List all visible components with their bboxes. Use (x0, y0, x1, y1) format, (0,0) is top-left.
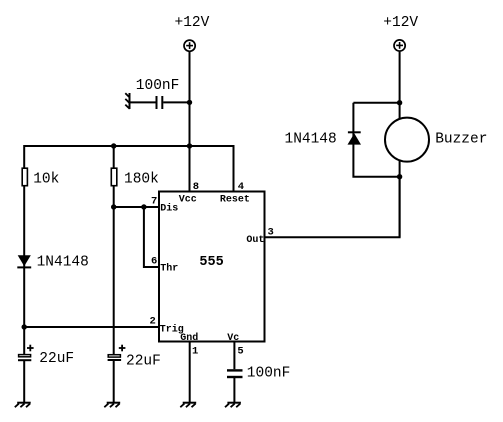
svg-text:1N4148: 1N4148 (285, 131, 337, 147)
svg-text:+12V: +12V (383, 15, 418, 31)
svg-text:3: 3 (268, 226, 274, 238)
svg-text:Gnd: Gnd (180, 332, 198, 344)
svg-text:Vc: Vc (227, 333, 239, 344)
svg-text:180k: 180k (124, 172, 159, 188)
svg-text:Buzzer: Buzzer (435, 131, 487, 147)
svg-text:2: 2 (150, 316, 156, 328)
svg-text:Dis: Dis (160, 203, 178, 215)
svg-text:1N4148: 1N4148 (37, 255, 89, 271)
svg-text:7: 7 (151, 196, 157, 208)
svg-text:555: 555 (199, 255, 223, 270)
svg-text:100nF: 100nF (136, 78, 180, 94)
svg-text:22uF: 22uF (126, 353, 161, 369)
svg-text:8: 8 (193, 181, 199, 193)
svg-text:4: 4 (238, 181, 244, 193)
svg-text:Out: Out (246, 235, 264, 246)
svg-text:100nF: 100nF (247, 365, 291, 381)
svg-text:Reset: Reset (220, 194, 250, 205)
svg-text:22uF: 22uF (39, 351, 74, 367)
svg-text:Thr: Thr (160, 263, 178, 275)
svg-text:6: 6 (151, 256, 157, 268)
svg-text:Vcc: Vcc (179, 194, 197, 205)
svg-text:10k: 10k (33, 172, 59, 188)
svg-text:5: 5 (237, 345, 243, 357)
svg-text:1: 1 (192, 345, 198, 357)
svg-text:+12V: +12V (175, 15, 210, 31)
